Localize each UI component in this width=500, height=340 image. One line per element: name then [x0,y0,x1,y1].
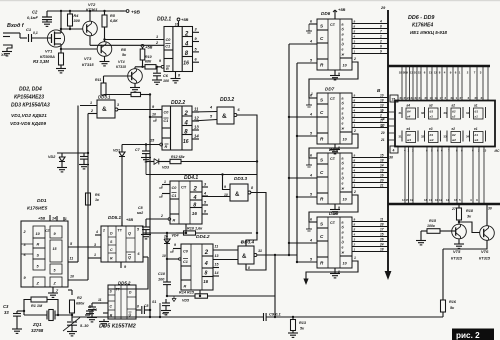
svg-text:21: 21 [380,138,385,142]
svg-text:2: 2 [184,32,189,38]
capacitor C5a [83,153,85,156]
svg-text:16: 16 [192,211,198,216]
svg-text:11: 11 [215,245,219,249]
svg-text:DD6 - DD9: DD6 - DD9 [408,15,434,21]
svg-text:1к: 1к [95,198,99,202]
chain DD7 to DD8 [309,134,358,158]
transistor VT5 [452,224,467,239]
pin ground DD9 [334,268,336,273]
svg-text:17: 17 [381,124,385,128]
svg-text:2: 2 [353,190,356,194]
corner pin 15 box [390,95,398,102]
svg-text:г2: г2 [452,115,456,119]
svg-text:ж1: ж1 [474,138,479,142]
svg-text:13: 13 [194,125,199,130]
input stubs DD5.2 [100,302,108,304]
svg-text:4: 4 [353,233,356,237]
svg-text:19: 19 [430,96,434,100]
svg-text:4: 4 [393,149,395,153]
capacitor C6 [156,66,158,68]
svg-text:1: 1 [311,92,313,96]
svg-text:31: 31 [399,135,403,139]
svg-text:4: 4 [309,174,312,178]
svg-text:б2: б2 [452,110,456,114]
svg-text:26: 26 [379,238,384,242]
svg-text:1: 1 [164,180,166,184]
wire segment output DD7 д [352,117,388,119]
svg-text:С9 0,1: С9 0,1 [269,312,282,317]
transistor VT4 [128,69,143,84]
wire segment output DD6 е [352,48,388,50]
svg-text:11: 11 [194,107,199,112]
transistor VT3 [97,42,112,57]
svg-text:R18: R18 [466,209,474,213]
svg-text:КТ315: КТ315 [479,257,491,261]
svg-text:4: 4 [353,109,356,113]
wire VT1 drain [60,11,62,33]
svg-text:DD3.2: DD3.2 [220,97,234,103]
output stubs DD4.2 to DD3.4 [213,249,238,251]
svg-text:ИЕ1 ИЖКЦ 5-918: ИЕ1 ИЖКЦ 5-918 [410,30,447,35]
svg-text:1: 1 [65,217,67,221]
svg-text:100к: 100к [427,224,435,228]
svg-text:3: 3 [117,103,119,107]
svg-text:&: & [222,113,227,120]
svg-text:г3: г3 [430,115,434,119]
svg-text:7: 7 [380,30,382,34]
svg-text:2: 2 [160,214,163,218]
wire DD3.3 out vertical [246,193,266,271]
svg-text:12: 12 [439,198,443,202]
pin S DD6 [309,23,317,25]
resistor R12 [131,92,141,96]
svg-text:2: 2 [184,111,189,117]
diode VD5 inline [173,296,175,299]
svg-text:д3: д3 [430,133,434,137]
svg-text:19: 19 [410,198,414,202]
wire DD3.2 out to DD3.4 top [237,115,257,246]
wire VT1 source to VT3 base [60,44,62,49]
svg-text:XS1: XS1 [0,53,8,57]
crystal ZQ1 [24,314,47,316]
wire segment output DD8 д [352,177,388,179]
pin bottom DD4.2 [199,290,201,296]
svg-text:рис. 2: рис. 2 [456,331,480,340]
svg-text:C1: C1 [183,260,188,264]
svg-text:C: C [110,248,113,252]
pin ground DD5.2 [103,319,105,321]
wire DD3.4 output to reset bus [257,254,297,256]
svg-text:2: 2 [353,129,356,133]
svg-text:DD2.1: DD2.1 [157,17,171,23]
wire segment output DD9 г [352,236,388,238]
svg-text:CT: CT [330,23,336,27]
svg-text:R16: R16 [449,300,457,304]
svg-text:DD3.1: DD3.1 [98,95,111,100]
svg-text:4: 4 [309,113,312,117]
svg-text:CT: CT [330,157,336,161]
pin R DD9 [297,261,317,263]
svg-text:8: 8 [137,305,139,309]
svg-text:Q: Q [128,232,131,236]
wire segment output DD8 б [352,162,388,164]
svg-text:11: 11 [70,257,74,261]
wire segment output DD6 г [352,38,388,40]
svg-text:11: 11 [98,298,102,302]
wire R10a to x257 [196,232,253,234]
svg-text:11: 11 [380,218,384,222]
svg-text:2: 2 [353,57,356,61]
pin S DD9 [309,221,317,223]
svg-text:КР1554ИЕ23: КР1554ИЕ23 [14,95,44,101]
pin C DD8 [289,177,317,179]
input stubs DD2.2 [156,109,162,111]
svg-text:6: 6 [380,45,382,49]
svg-text:400: 400 [161,312,168,316]
caption рис 2 [452,329,494,340]
wire segment output DD6 ж [352,53,388,55]
bus bottom [388,203,500,205]
svg-text:ИС: ИС [495,149,500,153]
svg-text:16: 16 [203,279,208,284]
switch S1 [159,303,161,317]
svg-text:VT1: VT1 [45,49,53,54]
svg-text:г1: г1 [475,115,479,119]
capacitor C9 [263,313,265,321]
resistor R11 [101,83,106,95]
wire Q to R10a [176,232,184,234]
svg-text:34: 34 [466,135,470,139]
svg-text:е: е [342,181,344,185]
svg-text:14: 14 [380,164,384,168]
svg-text:R: R [165,145,168,149]
svg-text:27: 27 [460,96,464,100]
wire line2 to DD2.1 C1 input [90,44,164,46]
svg-text:VT4: VT4 [118,60,125,64]
svg-text:DD1: DD1 [37,198,47,204]
output pin 11 DD1 [68,261,78,263]
svg-text:6,8К: 6,8К [110,19,118,23]
svg-text:TT: TT [116,288,120,292]
pin C DD7 [289,116,317,118]
output stubs DD2.2 [192,111,199,113]
svg-text:е2: е2 [452,127,456,131]
svg-text:R15: R15 [429,219,437,223]
svg-text:19: 19 [380,169,384,173]
resistor R4 [69,11,71,14]
svg-text:R13: R13 [299,321,307,325]
bus top [388,65,490,67]
wires DD4.1 to DD3.3 [202,196,230,198]
svg-text:1: 1 [380,35,382,39]
wire segment output DD8 г [352,172,388,174]
svg-text:DD3.3: DD3.3 [234,176,247,181]
svg-text:33: 33 [444,111,448,115]
transistor VT6 [480,226,495,241]
svg-text:10: 10 [162,254,166,258]
display HG1 block [395,101,495,147]
R input DD2.2 [122,144,160,146]
svg-text:68К: 68К [145,60,152,64]
svg-text:9: 9 [159,59,161,63]
resistor R12 68k [170,159,181,163]
svg-text:а1: а1 [474,104,478,108]
wire segment output DD7 г [352,112,388,114]
svg-text:е: е [342,121,344,125]
svg-text:18: 18 [424,198,428,202]
svg-text:32: 32 [421,111,425,115]
svg-text:+5В: +5В [145,45,153,50]
wire drop to DD3.3 input [223,175,231,190]
wire common y174.5 [146,174,257,176]
svg-text:2: 2 [204,250,209,256]
wire segment output DD6 б [352,28,388,30]
svg-text:R10: R10 [145,55,152,59]
svg-text:4: 4 [184,42,189,48]
svg-text:17: 17 [380,228,384,232]
svg-text:14: 14 [215,271,219,275]
svg-text:VD2: VD2 [48,155,56,159]
svg-text:16: 16 [183,61,189,67]
wire segment output DD7 б [352,102,388,104]
wire input [14,32,20,34]
connector XS1 [3,32,14,34]
input stubs DD5.1 [95,234,101,236]
wire DD3.1 junction vertical x150 [149,95,151,318]
wire segment output DD9 ж [352,251,388,253]
svg-text:R3 3,3М: R3 3,3М [33,59,49,64]
svg-text:30: 30 [389,156,393,160]
output stubs DD2.1 [193,31,200,33]
transistor VT2 [83,21,98,36]
svg-text:VD1: VD1 [113,149,120,153]
svg-text:4: 4 [204,261,208,267]
svg-text:+5В: +5В [338,7,346,12]
pin R DD7 [297,135,317,137]
svg-text:4: 4 [353,35,356,39]
svg-text:г: г [342,37,344,41]
wire segment output DD8 а [352,157,388,159]
svg-text:г: г [342,111,344,115]
svg-text:100: 100 [163,79,169,83]
wire segment output DD9 а [352,221,388,223]
wire R11 to vertical [103,94,105,97]
svg-text:2: 2 [193,187,198,193]
svg-text:е3: е3 [429,127,433,131]
svg-text:1: 1 [94,253,96,257]
pin C DD6 [289,43,317,45]
svg-text:16: 16 [381,117,385,121]
svg-text:ZQ1: ZQ1 [32,322,42,327]
svg-text:VD5: VD5 [182,299,190,303]
resistor R6 [86,193,91,205]
pin +5V DD2.1 [178,21,180,27]
svg-text:3: 3 [94,243,96,247]
svg-text:10: 10 [380,94,384,98]
svg-text:2: 2 [379,40,382,44]
svg-text:CT: CT [181,185,187,190]
chain DD6 to DD7 [309,62,358,98]
pin R DD6 [297,62,317,64]
svg-text:КТ315: КТ315 [82,62,94,67]
svg-text:31: 31 [399,111,403,115]
pin ground DD7 [334,144,336,149]
svg-text:R: R [110,257,113,261]
svg-text:4: 4 [309,239,312,243]
svg-text:10: 10 [241,240,245,244]
svg-text:9: 9 [174,243,176,247]
svg-text:9: 9 [380,50,382,54]
svg-text:2: 2 [353,119,356,123]
svg-text:К176ИЕ5: К176ИЕ5 [27,206,48,212]
capacitor C12 [91,303,93,307]
svg-text:10: 10 [70,275,74,279]
svg-text:680к: 680к [76,302,85,306]
svg-text:5..30: 5..30 [80,324,89,328]
svg-text:13: 13 [483,149,487,153]
svg-text:16: 16 [183,139,189,145]
svg-text:+9В: +9В [131,10,140,16]
clock bus dots [288,116,290,118]
svg-text:0,1мF: 0,1мF [27,15,39,20]
pin 9 DD5.1 [120,262,122,268]
diode VD1 [121,145,123,153]
svg-text:R1 1М: R1 1М [31,304,43,308]
svg-text:2: 2 [353,45,356,49]
svg-text:D: D [110,232,113,236]
svg-text:R: R [37,243,40,247]
wire clock bus A [288,44,290,255]
wire VT4 base to R11 [104,75,132,77]
wire R10 to DD2.1 R input [156,66,161,68]
wire vertical x275 [274,255,276,317]
svg-text:R11: R11 [95,78,101,82]
svg-text:ж4: ж4 [406,138,411,142]
power +5V DD6 [334,10,336,19]
svg-text:R10 1,6к: R10 1,6к [187,227,203,231]
svg-text:ж: ж [341,250,345,254]
svg-text:DD5 К155ТМ2: DD5 К155ТМ2 [99,324,137,330]
svg-text:S1: S1 [152,300,156,304]
wire VT5 collector to VT6 base [458,221,460,223]
svg-text:К176ИЕ4: К176ИЕ4 [412,23,433,29]
svg-text:DD2.2: DD2.2 [171,100,185,106]
trimmer capacitor C5 [71,315,73,321]
svg-text:е: е [342,245,344,249]
svg-text:DD4.2: DD4.2 [196,234,210,240]
svg-text:4: 4 [184,121,189,127]
svg-text:б4: б4 [407,110,411,114]
pin S DD7 [309,97,317,99]
wire segment output DD6 д [352,43,388,45]
svg-text:КТ361: КТ361 [86,7,98,12]
svg-text:а2: а2 [452,104,456,108]
svg-text:30: 30 [488,207,492,211]
svg-text:б3: б3 [430,110,434,114]
resistor R1 [24,300,31,316]
svg-text:16: 16 [454,198,458,202]
svg-text:2: 2 [353,243,356,247]
svg-text:C10: C10 [158,272,166,276]
svg-text:мк2: мк2 [137,211,143,215]
R input DD4.1 with C8a [146,218,169,220]
svg-text:г4: г4 [407,115,411,119]
wire segment output DD9 е [352,246,388,248]
svg-text:17: 17 [440,96,444,100]
svg-text:2: 2 [90,109,93,113]
svg-text:15: 15 [418,71,422,75]
svg-text:КТ315: КТ315 [116,65,126,69]
svg-text:ж2: ж2 [451,138,456,142]
display left stubs [388,111,394,113]
output pin 10 DD1 [68,279,88,281]
diode VD4 [164,239,170,244]
svg-text:20: 20 [425,96,429,100]
svg-text:18: 18 [380,159,384,163]
svg-text:ж3: ж3 [429,138,434,142]
resistor R16 [442,249,444,300]
wire segment output DD7 ж [352,127,388,129]
diode VD3 horizontal [145,157,147,175]
svg-text:VT3: VT3 [84,56,92,61]
svg-text:&: & [102,106,107,113]
svg-text:9: 9 [338,206,340,210]
svg-text:33: 33 [4,310,9,315]
svg-text:21: 21 [419,96,423,100]
svg-text:е: е [342,47,344,51]
svg-text:15: 15 [380,154,384,158]
node VT2 base [61,28,83,30]
svg-text:13: 13 [380,104,384,108]
svg-text:R12 68к: R12 68к [171,155,185,159]
svg-text:28: 28 [379,223,384,227]
capacitor C1 [28,34,30,42]
svg-text:С8: С8 [144,304,148,308]
svg-text:8: 8 [193,203,196,209]
chain DD9 output arrow [306,261,358,281]
svg-text:12: 12 [434,71,438,75]
svg-text:4: 4 [379,20,382,24]
svg-text:д1: д1 [475,133,479,137]
svg-text:1: 1 [90,101,92,105]
input stubs DD4.1 [162,184,170,186]
svg-text:8: 8 [381,110,383,114]
svg-text:VT5: VT5 [453,249,461,254]
svg-text:а: а [342,156,344,160]
svg-text:а3: а3 [429,104,433,108]
svg-text:2: 2 [353,179,356,183]
svg-text:34: 34 [466,111,470,115]
svg-text:&: & [235,192,240,198]
Qbar output DD5.1 [143,256,148,258]
resistor R10 [145,65,156,69]
svg-text:100: 100 [158,278,165,282]
output pin 5 DD1 [68,246,101,248]
pin ground DD6 [334,70,336,75]
svg-text:8: 8 [248,266,250,270]
pin bottom DD4.1 [185,224,187,233]
svg-text:R: R [184,285,187,289]
svg-text:д2: д2 [452,133,456,137]
power rail +9V [47,10,126,12]
wire segment output DD9 в [352,231,388,233]
svg-text:24: 24 [379,243,384,247]
svg-text:4: 4 [353,169,356,173]
svg-text:VD1,VD2 КД521: VD1,VD2 КД521 [11,113,47,119]
svg-text:29: 29 [380,6,386,10]
wire line1 to DD2.1 C0 input [103,38,105,40]
svg-text:R: R [166,67,169,71]
